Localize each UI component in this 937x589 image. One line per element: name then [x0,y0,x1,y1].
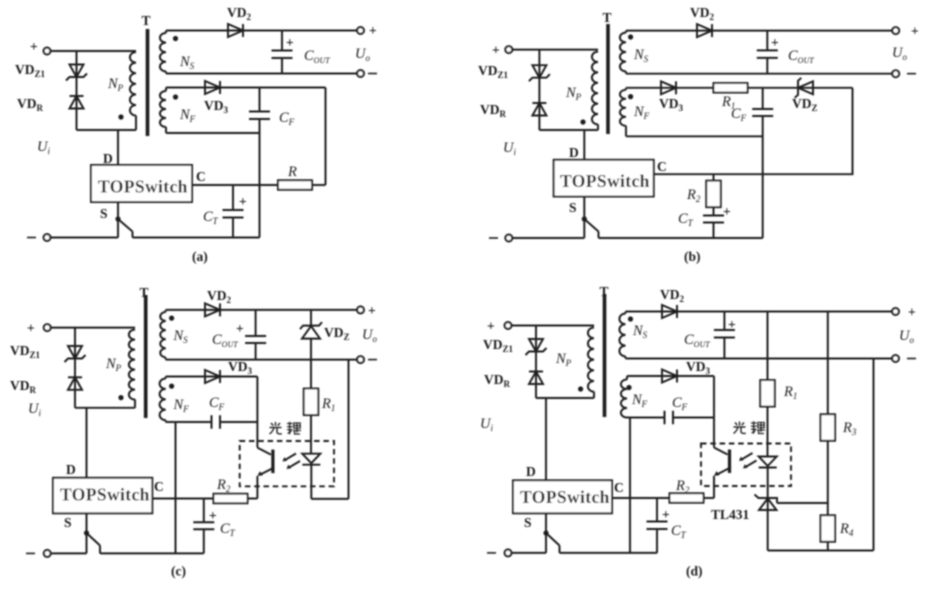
junction S switch (a) [115,216,120,221]
svg-text:D: D [103,151,113,166]
wire clamp bottom (c) [75,407,135,409]
optocoupler LED (d) [759,457,777,468]
diode VDR clamp (c) [68,377,82,390]
wire COUT bottom (a) [281,58,283,74]
wire R1 to LED (c) [310,415,312,454]
output - terminal (a) [357,70,364,77]
wire output ground rail (d) [768,550,874,552]
svg-text:C: C [154,479,164,494]
wire node to CF (a) [259,88,261,112]
wire primary bottom (c) [134,399,136,408]
svg-text:+: + [487,319,495,334]
wire + rail to R1 (d) [767,312,769,381]
rectifier diode VD2 (c) [205,303,220,316]
wire source rail left (a) [50,237,118,239]
wire R1 to LED (d) [767,407,769,457]
wire + rail to R3 (d) [827,312,829,415]
wire primary bottom (a) [135,116,137,130]
wire CT bottom (d) [656,529,658,553]
resistor R (a) [278,180,312,190]
resistor R1 (d) [760,380,775,407]
wire NF rectified rail (c) [166,376,258,378]
wire clamp bottom (d) [536,397,594,399]
IC U1 TOPSwitch (c) [53,478,152,514]
bias winding NF (c) [160,379,166,421]
wire LED to TL431 (d) [767,468,769,511]
bias capacitor CF (d) [665,411,674,425]
bias winding NF (d) [621,380,627,418]
wire emitter down (c) [256,476,258,499]
wire to COUT (c) [255,310,257,336]
svg-text:TL431: TL431 [711,507,750,522]
wire S pin (c) [86,513,88,553]
wire clamp bottom (a) [77,129,137,131]
input - terminal (a) [44,234,51,241]
label - in (d) [487,552,496,554]
wire COUT bottom (d) [723,338,725,359]
phototransistor of optocoupler (c) [257,448,273,476]
wire source rail left (c) [51,552,87,554]
bias diode VD3 (a) [205,81,220,94]
bias diode VD3 (d) [662,370,677,383]
svg-text:R: R [287,164,297,180]
svg-text:+: + [662,507,670,522]
wire VDZ to C pin (b) [654,88,853,174]
wire primary bottom (b) [597,124,599,130]
control capacitor CT (b) [703,216,724,223]
svg-text:T: T [142,13,151,28]
wire primary bottom (d) [593,392,595,398]
output + terminal (b) [892,27,899,34]
wire NS top stub (a) [165,31,167,34]
resistor R3 (d) [821,414,836,441]
junction S switch (d) [543,530,548,535]
secondary winding NS (a) [160,33,166,71]
wire source rail right (b) [599,237,763,239]
svg-text:+: + [492,43,500,58]
wire NF rectified rail (b) [626,87,853,89]
wire VD3 node to phototransistor (c) [256,377,258,448]
wire CF to node (d) [673,417,714,419]
svg-text:+: + [236,321,244,336]
wire secondary top rail (b) [626,30,892,32]
polarity dot NS (d) [628,316,633,321]
wire R4 bottom (d) [827,542,829,551]
output - terminal (b) [892,70,899,77]
sub-circuit (b) [478,5,919,264]
diode VDR clamp (b) [532,103,546,116]
wire NS top stub (c) [165,310,167,312]
wire clamp branch (d) [535,326,537,399]
wire C pin to CT (a) [232,185,234,210]
svg-text:(a): (a) [192,249,208,264]
svg-text:+: + [723,204,731,219]
wire NF return to source rail (c) [175,422,177,553]
wire secondary bottom rail (b) [626,73,892,75]
polarity dot NP (b) [580,119,585,124]
sub-circuit (c) [10,285,377,579]
svg-text:+: + [728,317,736,332]
zener diode VDZ1 clamp (a) [66,65,87,81]
wire source rail right (c) [100,552,204,554]
svg-text:+: + [209,508,217,523]
wire NF return left (c) [166,421,212,423]
wire source rail left (d) [511,552,546,554]
svg-text:T: T [600,284,609,299]
svg-text:T: T [603,10,612,25]
wire CT bottom (a) [232,218,234,238]
wire NF return to source rail (d) [629,418,631,553]
zener diode VDZ1 clamp (d) [526,339,547,355]
primary winding NP (d) [588,328,594,392]
wire NF bottom stub (c) [165,420,167,422]
svg-text:C: C [196,169,206,184]
resistor R4 (d) [821,515,836,542]
bias capacitor CF (c) [212,415,221,429]
switch blade drop (b) [598,232,600,239]
label optocoupler GuangOu (d) [734,421,766,434]
wire - rail drop (c) [348,360,350,499]
wire NF rectified rail (a) [166,87,326,89]
optocoupler dashed box (c) [240,441,334,486]
polarity dot NS (c) [169,316,174,321]
svg-text:+: + [771,35,779,50]
wire NF top stub (c) [165,377,167,379]
wire NF bottom stub (a) [165,127,167,133]
svg-text:C: C [657,159,667,174]
switch blade (d) [546,533,560,546]
resistor R2 (d) [670,493,704,503]
polarity dot NF (c) [169,384,174,389]
wire CF to node (c) [220,421,257,423]
polarity dot NP (c) [118,395,123,400]
feedback zener VDZ (b) [795,78,813,98]
wire C pin (d) [612,497,669,499]
sub-circuit (d) [480,284,916,579]
sub-circuit (a) [15,5,377,264]
phototransistor of optocoupler (d) [714,448,730,476]
svg-text:S: S [64,515,72,530]
light arrows (d) [739,453,757,469]
label - in (b) [489,237,498,239]
svg-text:TOPSwitch: TOPSwitch [60,485,150,505]
wire S pin (d) [545,513,547,553]
switch blade drop (c) [99,546,101,554]
bias diode VD3 (c) [205,370,220,383]
wire NF return left (d) [627,417,665,419]
wire source rail right (a) [133,237,260,239]
secondary winding NS (d) [619,314,625,357]
transformer core T (c) [144,295,148,418]
switch blade drop (d) [559,546,561,553]
wire COUT bottom (b) [766,58,768,74]
label - out (d) [907,358,916,360]
svg-text:S: S [569,200,577,215]
svg-text:C: C [614,480,624,495]
label - in (a) [27,237,36,239]
svg-text:+: + [239,194,247,209]
svg-text:S: S [100,206,108,221]
primary winding NP (b) [592,52,598,125]
wire clamp bottom (b) [539,129,598,131]
primary winding NP (a) [130,52,136,116]
wire + input to primary top (b) [512,49,598,51]
wire S pin (b) [583,197,585,239]
svg-text:+: + [369,23,377,38]
wire NS top stub (d) [625,312,627,314]
svg-text:+: + [368,303,376,318]
IC U1 TOPSwitch (d) [513,480,612,513]
polarity dot NF (d) [626,385,631,390]
secondary winding NS (b) [620,33,626,72]
input + terminal (d) [505,322,512,329]
input - terminal (c) [44,550,51,557]
label - out (c) [368,359,377,361]
svg-text:(c): (c) [171,564,186,579]
polarity dot NS (a) [173,36,178,41]
rectifier diode VD2 (a) [228,24,243,37]
diode VDR clamp (a) [70,96,84,109]
bias capacitor CF (a) [249,112,270,120]
polarity dot NS (b) [628,34,633,39]
wire NF return (b) [626,135,763,137]
bias winding NF (a) [160,91,166,127]
wire to COUT (d) [723,312,725,331]
output + terminal (a) [357,27,364,34]
wire secondary top rail (c) [166,309,357,311]
resistor R2 (c) [214,494,248,504]
transformer core T (b) [606,24,610,134]
wire to COUT (a) [281,31,283,51]
resistor R1 (b) [714,83,748,93]
wire NF top stub (b) [625,88,627,90]
wire D pin (c) [86,408,88,478]
wire CF to source rail (b) [762,116,764,238]
transformer core T (d) [603,294,607,417]
shunt regulator TL431 (d) [755,495,778,551]
output capacitor COUT (b) [757,50,778,58]
wire LED return (c) [311,498,348,500]
svg-text:+: + [30,39,38,54]
wire R right (a) [312,184,326,186]
wire to COUT (b) [766,31,768,51]
output zener VDZ (c) [300,322,322,339]
bias winding NF (b) [620,90,626,126]
svg-text:D: D [526,464,536,479]
wire NF bottom stub (d) [626,417,628,419]
wire source rail left (b) [512,237,584,239]
wire + rail to VDZ (c) [310,310,312,326]
switch blade (c) [87,533,101,546]
svg-text:D: D [569,145,579,160]
wire VD3 node to phototransistor (d) [713,376,715,448]
wire source rail right (d) [560,552,658,554]
wire NS bottom stub (d) [625,356,627,358]
diode VDR clamp (d) [529,372,543,385]
wire + input to primary top (d) [511,325,594,327]
wire VDZ to R1 (c) [310,339,312,389]
wire R3 to R4 (d) [827,441,829,516]
input + terminal (a) [44,48,51,55]
transformer core T (a) [146,29,150,136]
switch blade (b) [584,219,598,232]
optocoupler LED (c) [302,454,320,465]
input + terminal (c) [44,324,51,331]
svg-text:(d): (d) [686,564,703,579]
svg-text:(b): (b) [684,249,701,264]
secondary winding NS (c) [160,312,165,358]
output + terminal (d) [892,308,899,315]
wire secondary bottom rail (a) [166,73,357,75]
wire NS bottom stub (b) [625,71,627,73]
input - terminal (b) [505,235,512,242]
wire - rail drop (d) [873,359,875,551]
output - terminal (d) [892,355,899,362]
wire secondary top rail (d) [626,311,893,313]
wire TL431 ref to divider (d) [777,502,828,504]
polarity dot NF (a) [173,94,178,99]
IC U1 TOPSwitch (b) [554,160,654,197]
wire + input to primary top (a) [50,50,136,52]
output capacitor COUT (d) [714,330,735,338]
wire node to CF (b) [762,88,764,109]
rectifier diode VD2 (d) [662,305,677,318]
wire NF return (a) [166,132,260,134]
wire D pin (b) [583,130,585,160]
wire to CT (c) [203,499,205,523]
control capacitor CT (c) [193,522,214,529]
switch blade (a) [118,219,133,232]
polarity dot NP (a) [118,114,123,119]
label - out (b) [907,73,916,75]
label - out (a) [368,73,377,75]
input + terminal (b) [505,46,512,53]
wire CT bottom (b) [713,223,715,239]
wire CF to source rail (a) [259,119,261,238]
wire NF rectified rail (d) [627,375,714,377]
wire C pin to R (a) [192,184,278,186]
bias diode VD3 (b) [661,81,676,94]
output capacitor COUT (c) [245,336,266,343]
wire secondary bottom rail (d) [626,358,893,360]
control capacitor CT (a) [223,210,244,218]
zener diode VDZ1 clamp (c) [65,346,86,362]
svg-text:T: T [140,285,149,300]
optocoupler dashed box (d) [701,444,791,487]
wire NF top stub (a) [165,88,167,92]
wire COUT bottom (c) [255,343,257,360]
primary winding NP (c) [129,330,135,400]
wire CT bottom (c) [203,529,205,553]
wire NF top stub (d) [626,376,628,380]
svg-text:+: + [911,24,919,39]
wire R2 to CT (b) [713,207,715,215]
output + terminal (c) [357,307,364,314]
wire NS bottom stub (c) [165,358,167,360]
output capacitor COUT (a) [272,51,293,59]
wire C pin to R2 (b) [713,174,715,180]
wire emitter down (d) [713,476,715,498]
wire LED to return (c) [310,465,312,499]
polarity dot NF (b) [628,94,633,99]
junction S switch (b) [582,216,587,221]
wire to CT (d) [656,498,658,522]
wire C pin (c) [152,498,213,500]
label - in (c) [26,552,35,554]
svg-text:+: + [908,305,916,320]
svg-text:D: D [66,462,76,477]
output - terminal (c) [357,356,364,363]
wire secondary bottom rail (c) [166,359,357,361]
zener diode VDZ1 clamp (b) [529,65,550,81]
resistor R1 (c) [304,389,319,416]
resistor R2 (b) [706,181,721,208]
wire NS bottom stub (a) [165,71,167,73]
polarity dot NP (d) [578,386,583,391]
junction S switch (c) [84,530,89,535]
svg-text:S: S [524,515,532,530]
svg-text:+: + [286,35,294,50]
light arrows (c) [283,454,301,470]
wire S pin (a) [117,202,119,238]
IC U1 TOPSwitch (a) [91,165,192,202]
control capacitor CT (d) [647,522,668,530]
wire node to R (a) [325,88,327,186]
wire D pin (d) [545,398,547,480]
wire clamp branch (b) [538,50,540,130]
wire emitter to R2 (d) [704,497,714,499]
wire D pin (a) [117,130,119,165]
wire emitter to R2 (c) [248,498,257,500]
wire secondary top rail (a) [166,30,357,32]
svg-text:TOPSwitch: TOPSwitch [520,487,610,507]
wire NF bottom stub (b) [625,126,627,137]
wire NS top stub (b) [625,31,627,33]
svg-text:+: + [27,321,35,336]
bias capacitor CF (b) [752,109,773,116]
wire clamp branch (c) [74,328,76,408]
svg-text:TOPSwitch: TOPSwitch [560,171,650,191]
input - terminal (d) [505,550,512,557]
rectifier diode VD2 (b) [697,24,712,37]
svg-text:TOPSwitch: TOPSwitch [98,177,188,197]
wire + input to primary top (c) [51,327,135,329]
wire clamp branch (a) [76,51,78,130]
label optocoupler GuangOu (c) [270,422,302,435]
switch blade drop (a) [132,232,134,238]
